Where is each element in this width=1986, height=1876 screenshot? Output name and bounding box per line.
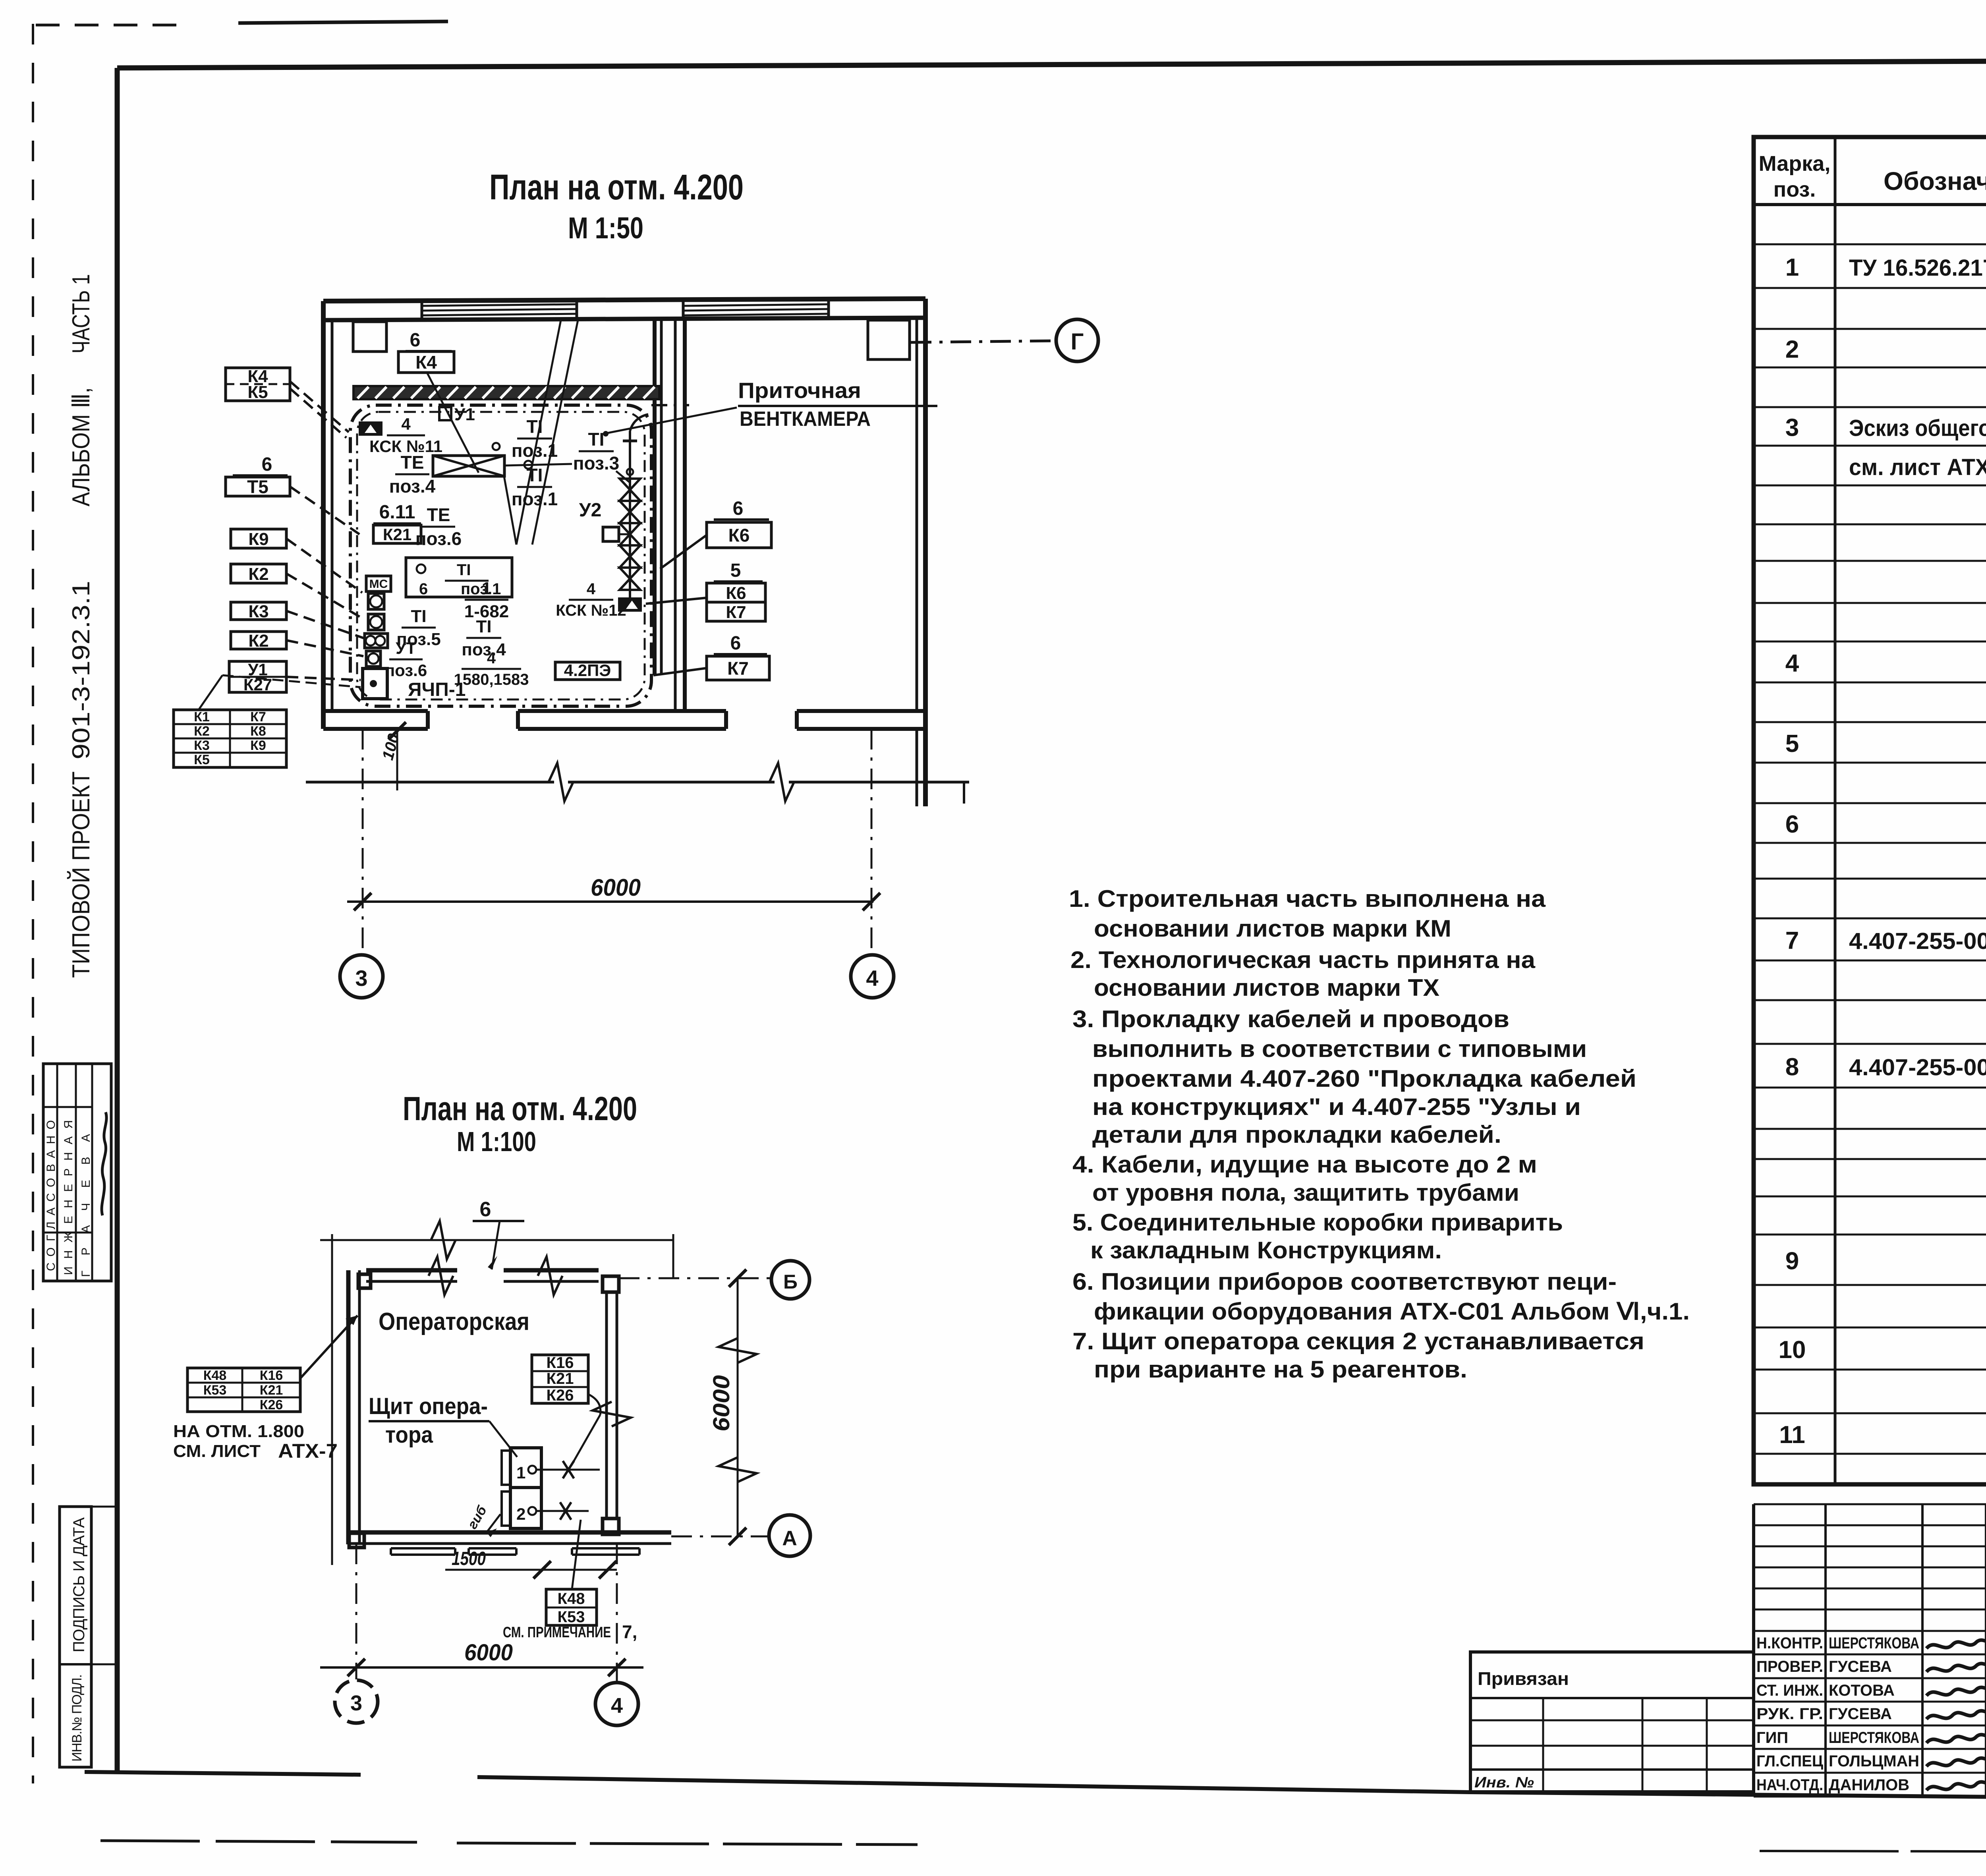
svg-text:План на отм. 4.200: План на отм. 4.200 xyxy=(403,1090,637,1127)
svg-text:1500: 1500 xyxy=(452,1548,486,1569)
dimension 1500 xyxy=(445,1569,617,1571)
table row lines xyxy=(1754,243,1986,245)
instrument box with list xyxy=(406,558,512,597)
axis Г leader and circle xyxy=(911,341,1055,342)
svg-text:к закладным Конструкциям.: к закладным Конструкциям. xyxy=(1090,1237,1442,1264)
svg-text:6000: 6000 xyxy=(591,874,641,901)
svg-text:выполнить в соответствии с: выполнить в соответствии с типовыми xyxy=(1092,1036,1587,1062)
svg-text:от уровня пола, защитить т: от уровня пола, защитить трубами xyxy=(1092,1179,1519,1206)
svg-text:4.407-255-003 исп.4: 4.407-255-003 исп.4 xyxy=(1849,928,1986,954)
svg-text:3: 3 xyxy=(350,1691,362,1715)
svg-text:ИНВ.№ ПОДЛ.: ИНВ.№ ПОДЛ. xyxy=(70,1674,85,1762)
svg-text:ВЕНТКАМЕРА: ВЕНТКАМЕРА xyxy=(740,408,871,431)
svg-text:1: 1 xyxy=(482,579,491,598)
left flag table K48/K16 ... xyxy=(187,1368,300,1412)
svg-text:К48: К48 xyxy=(203,1368,227,1383)
svg-text:8: 8 xyxy=(1785,1053,1799,1081)
flag K16/K21/K26 xyxy=(532,1355,588,1403)
svg-text:7,: 7, xyxy=(622,1621,637,1642)
svg-text:проектами 4.407-260 "Прокла: проектами 4.407-260 "Прокладка кабелей xyxy=(1092,1065,1636,1092)
svg-text:1. Строительная часть выполн: 1. Строительная часть выполнена на xyxy=(1069,885,1546,912)
svg-text:4. Кабели, идущие на высоте: 4. Кабели, идущие на высоте до 2 м xyxy=(1072,1151,1537,1178)
svg-text:К26: К26 xyxy=(260,1397,283,1412)
svg-text:АЛЬБОМ Ⅲ,: АЛЬБОМ Ⅲ, xyxy=(68,387,95,506)
svg-text:Н.КОНТР.: Н.КОНТР. xyxy=(1756,1634,1823,1652)
svg-text:см. лист АТХ-3.: см. лист АТХ-3. xyxy=(1849,454,1986,480)
svg-text:5. Соединительные коробки п: 5. Соединительные коробки приварить xyxy=(1072,1209,1563,1236)
lower plan: right wall xyxy=(605,1292,608,1519)
svg-text:К1: К1 xyxy=(194,709,210,725)
svg-text:К7: К7 xyxy=(726,603,746,622)
svg-text:ЧАСТЬ 1: ЧАСТЬ 1 xyxy=(68,274,95,354)
svg-text:К8: К8 xyxy=(250,724,266,739)
svg-text:У1: У1 xyxy=(454,405,475,424)
svg-text:ШЕРСТЯКОВА: ШЕРСТЯКОВА xyxy=(1829,1634,1919,1652)
sheet top edge artifact lines xyxy=(36,24,190,27)
svg-text:3: 3 xyxy=(355,966,367,991)
svg-text:4.2ПЭ: 4.2ПЭ xyxy=(564,661,611,680)
svg-text:К5: К5 xyxy=(194,752,210,767)
svg-text:6: 6 xyxy=(733,498,744,519)
svg-text:ТИПОВОЙ ПРОЕКТ: ТИПОВОЙ ПРОЕКТ xyxy=(67,771,95,978)
upper plan: left wall xyxy=(321,301,326,729)
axis A dash-dot and circle xyxy=(671,1536,767,1538)
svg-text:6: 6 xyxy=(419,580,428,598)
svg-text:К3: К3 xyxy=(194,738,210,753)
left sheet dashed edge xyxy=(32,24,34,1783)
left column instrument symbols xyxy=(366,576,391,591)
svg-text:Г: Г xyxy=(1071,329,1084,355)
lower plan: corner/columns xyxy=(358,1274,371,1288)
svg-text:ГУСЕВА: ГУСЕВА xyxy=(1829,1658,1892,1675)
svg-text:детали для прокладки кабел: детали для прокладки кабелей. xyxy=(1092,1121,1501,1148)
svg-text:поз.1: поз.1 xyxy=(461,580,501,598)
local panel YaChP-1 xyxy=(363,668,387,699)
junction box KSK-12 (filled) xyxy=(618,597,642,612)
svg-text:К7: К7 xyxy=(250,709,266,725)
axis B dash-dot and circle xyxy=(619,1277,771,1279)
svg-text:К16: К16 xyxy=(260,1368,283,1383)
title block: left signature grid xyxy=(1752,1504,1755,1797)
junction box KSK-11 (filled) xyxy=(359,421,383,436)
upper plan: right wall xyxy=(916,318,918,711)
svg-text:6: 6 xyxy=(410,330,421,351)
lower plan: left wall xyxy=(346,1270,351,1544)
operator panel xyxy=(510,1448,541,1488)
bottom-left cable table 4x2 xyxy=(174,710,286,767)
svg-text:Обозначение: Обозначение xyxy=(1884,167,1986,195)
svg-text:поз.4: поз.4 xyxy=(462,640,506,659)
svg-text:ГИП: ГИП xyxy=(1756,1729,1788,1747)
left margin lower boxes (podpis i data / inv no) xyxy=(60,1507,91,1767)
svg-text:4.407-255-002 исп.4: 4.407-255-002 исп.4 xyxy=(1849,1055,1986,1080)
svg-text:7. Щит оператора секция 2 у: 7. Щит оператора секция 2 устанавливаетс… xyxy=(1072,1328,1644,1354)
svg-text:тора: тора xyxy=(385,1422,433,1448)
svg-text:Б: Б xyxy=(783,1271,798,1293)
wall continuation line below plan xyxy=(306,781,554,784)
svg-text:2: 2 xyxy=(1785,336,1799,363)
svg-text:К6: К6 xyxy=(728,525,750,546)
svg-text:М 1:50: М 1:50 xyxy=(568,211,643,245)
svg-text:К9: К9 xyxy=(250,738,266,753)
axes circles 3 and 4 (lower) xyxy=(355,1544,357,1679)
svg-text:ТI: ТI xyxy=(411,607,426,626)
svg-text:6: 6 xyxy=(1785,811,1799,838)
svg-text:СТ. ИНЖ.: СТ. ИНЖ. xyxy=(1756,1682,1823,1699)
upper plan: bottom wall segments xyxy=(323,709,428,713)
svg-text:4: 4 xyxy=(1785,650,1799,677)
svg-text:ТI: ТI xyxy=(457,561,471,579)
svg-text:У2: У2 xyxy=(579,500,602,521)
svg-text:2. Технологическая часть при: 2. Технологическая часть принята на xyxy=(1070,947,1536,973)
svg-text:К48: К48 xyxy=(558,1590,585,1607)
table column lines xyxy=(1834,137,1837,1484)
svg-text:К2: К2 xyxy=(194,724,210,739)
svg-text:К3: К3 xyxy=(248,602,269,621)
svg-text:3: 3 xyxy=(1785,414,1799,442)
svg-text:Инв. №: Инв. № xyxy=(1474,1774,1534,1791)
svg-text:СМ. ПРИМЕЧАНИЕ: СМ. ПРИМЕЧАНИЕ xyxy=(503,1624,611,1641)
svg-text:К16: К16 xyxy=(547,1354,574,1372)
svg-text:поз.1: поз.1 xyxy=(512,489,558,509)
svg-text:при варианте на 5 реагенто: при варианте на 5 реагентов. xyxy=(1094,1356,1467,1383)
svg-text:6.11: 6.11 xyxy=(379,502,415,523)
table outer border xyxy=(1754,137,1986,1484)
svg-text:ТI: ТI xyxy=(476,617,491,636)
valve manifold U2 xyxy=(629,431,631,597)
flag K48/K53 below xyxy=(546,1589,597,1625)
cable route loop (dash-dot rounded) xyxy=(350,405,651,706)
drawing frame border xyxy=(117,59,1986,68)
svg-text:ПОДПИСЬ И ДАТА: ПОДПИСЬ И ДАТА xyxy=(70,1517,88,1652)
svg-text:6000: 6000 xyxy=(464,1640,513,1665)
svg-text:К4: К4 xyxy=(415,352,437,373)
svg-text:901-3-192.3.1: 901-3-192.3.1 xyxy=(68,581,95,759)
svg-text:К26: К26 xyxy=(547,1387,574,1404)
leader lines from top wall down to instrument box xyxy=(516,320,561,545)
svg-text:4: 4 xyxy=(487,649,496,667)
upper plan: internal wall between rooms xyxy=(653,320,657,675)
svg-text:Приточная: Приточная xyxy=(738,378,861,403)
upper plan: hatched shelf band xyxy=(354,386,659,399)
svg-text:К6: К6 xyxy=(726,583,746,603)
svg-text:6: 6 xyxy=(480,1198,491,1221)
cable runs from panel xyxy=(537,1469,600,1471)
svg-text:на конструкциях" и 4.407-25: на конструкциях" и 4.407-255 "Узлы и xyxy=(1092,1094,1581,1120)
svg-text:6000: 6000 xyxy=(709,1375,734,1432)
table header separator xyxy=(1754,203,1986,206)
svg-text:К53: К53 xyxy=(558,1608,585,1626)
svg-text:Щит опера-: Щит опера- xyxy=(369,1393,488,1419)
svg-text:К5: К5 xyxy=(247,383,268,402)
crossed box xyxy=(433,456,504,476)
svg-text:основании листов марки ТХ: основании листов марки ТХ xyxy=(1094,974,1439,1001)
svg-text:К2: К2 xyxy=(248,631,269,651)
svg-text:основании листов марки КМ: основании листов марки КМ xyxy=(1094,915,1451,942)
box 4.2PE xyxy=(555,662,620,680)
svg-text:УТ: УТ xyxy=(396,639,416,657)
upper plan: top-left interior recess xyxy=(353,322,386,352)
svg-text:К21: К21 xyxy=(383,525,411,544)
svg-text:9: 9 xyxy=(1785,1248,1799,1275)
svg-text:ТI: ТI xyxy=(588,429,605,450)
svg-text:поз.6: поз.6 xyxy=(385,661,427,680)
dimension 6000 (lower) xyxy=(320,1666,643,1669)
dimension line 6000 (upper plan) xyxy=(347,900,873,903)
privyazan box xyxy=(1470,1652,1754,1792)
svg-text:НА ОТМ. 1.800: НА ОТМ. 1.800 xyxy=(173,1422,304,1441)
svg-text:МС: МС xyxy=(369,578,388,591)
left margin upper stamp table xyxy=(43,1064,111,1281)
svg-text:К7: К7 xyxy=(727,658,749,679)
svg-text:11: 11 xyxy=(1779,1421,1805,1449)
svg-text:1: 1 xyxy=(516,1463,525,1482)
svg-text:ТУ 16.526.217-78: ТУ 16.526.217-78 xyxy=(1849,255,1986,281)
svg-text:ШЕРСТЯКОВА: ШЕРСТЯКОВА xyxy=(1829,1729,1919,1747)
svg-text:ГОЛЬЦМАН: ГОЛЬЦМАН xyxy=(1829,1752,1919,1770)
riser symbol U1 at top wall xyxy=(439,407,451,420)
svg-text:4: 4 xyxy=(401,415,411,433)
svg-text:7: 7 xyxy=(1785,927,1799,954)
svg-text:СОГЛАСОВАНО: СОГЛАСОВАНО xyxy=(44,1120,58,1271)
svg-text:НАЧ.ОТД.: НАЧ.ОТД. xyxy=(1756,1776,1823,1794)
svg-text:План на отм. 4.200: План на отм. 4.200 xyxy=(489,168,744,207)
lower plan: top dimension line xyxy=(320,1239,673,1241)
lower plan: top wall xyxy=(366,1268,457,1273)
axis extension dash-dot lines xyxy=(362,729,364,952)
lower plan: bottom wall xyxy=(348,1530,671,1535)
svg-text:поз.3: поз.3 xyxy=(573,453,620,473)
svg-text:6: 6 xyxy=(262,454,272,475)
svg-text:ГЛ.СПЕЦ: ГЛ.СПЕЦ xyxy=(1756,1752,1823,1770)
svg-text:1: 1 xyxy=(1785,254,1799,281)
svg-text:К9: К9 xyxy=(248,529,269,549)
upper plan: top-right recess to axis G xyxy=(868,320,910,359)
svg-text:Операторская: Операторская xyxy=(379,1308,529,1335)
dimension 100 near door xyxy=(396,729,398,790)
svg-text:2: 2 xyxy=(516,1505,525,1523)
svg-text:Марка,: Марка, xyxy=(1759,152,1831,176)
svg-text:ГУСЕВА: ГУСЕВА xyxy=(1829,1705,1892,1723)
svg-text:3. Прокладку кабелей и пр: 3. Прокладку кабелей и проводов xyxy=(1072,1006,1509,1032)
svg-text:Т5: Т5 xyxy=(247,477,269,497)
axis circle 3 (upper) xyxy=(340,955,383,998)
left outside flags with leaders xyxy=(226,368,290,401)
svg-text:Привязан: Привязан xyxy=(1478,1668,1569,1689)
upper plan: top wall xyxy=(323,299,925,301)
svg-text:Эскиз общего вида: Эскиз общего вида xyxy=(1849,415,1986,441)
svg-text:СМ. ЛИСТ: СМ. ЛИСТ xyxy=(173,1441,261,1461)
svg-text:поз.: поз. xyxy=(1773,178,1816,201)
svg-text:К2: К2 xyxy=(248,564,269,584)
svg-text:АТХ-7: АТХ-7 xyxy=(278,1440,338,1462)
svg-text:5: 5 xyxy=(730,560,741,581)
left margin vertical text: album / project id xyxy=(67,274,95,978)
svg-text:ТЕ: ТЕ xyxy=(401,452,424,473)
svg-text:4: 4 xyxy=(611,1694,623,1718)
svg-text:6: 6 xyxy=(730,633,741,654)
svg-text:10: 10 xyxy=(1779,1336,1806,1364)
svg-text:поз.4: поз.4 xyxy=(389,476,436,497)
signature squiggles in stamp xyxy=(102,1112,106,1215)
svg-text:6. Позиции приборов соответс: 6. Позиции приборов соответствуют пеци- xyxy=(1072,1268,1617,1295)
lower plan: windows below bottom wall xyxy=(391,1547,455,1549)
svg-text:фикации оборудования АТХ-С01: фикации оборудования АТХ-С01 Альбом Ⅵ,ч.… xyxy=(1094,1298,1690,1325)
svg-text:5: 5 xyxy=(1785,730,1799,757)
svg-text:4: 4 xyxy=(866,966,878,991)
svg-text:К53: К53 xyxy=(203,1383,227,1398)
svg-text:ПРОВЕР.: ПРОВЕР. xyxy=(1756,1658,1823,1675)
svg-text:К21: К21 xyxy=(260,1383,283,1398)
right dimension 6000 (vertical) xyxy=(737,1278,739,1536)
upper plan: window strips in top wall xyxy=(422,304,577,306)
svg-text:ЯЧП-1: ЯЧП-1 xyxy=(408,679,466,700)
svg-text:КСК №12: КСК №12 xyxy=(556,602,626,619)
svg-text:А: А xyxy=(782,1527,797,1550)
svg-text:КОТОВА: КОТОВА xyxy=(1829,1682,1895,1699)
svg-text:РУК. ГР.: РУК. ГР. xyxy=(1756,1705,1823,1723)
svg-text:К21: К21 xyxy=(547,1370,574,1387)
svg-text:ТЕ: ТЕ xyxy=(427,504,450,525)
svg-text:М 1:100: М 1:100 xyxy=(457,1126,536,1157)
bottom scan artifact lines xyxy=(100,1841,417,1842)
svg-text:ДАНИЛОВ: ДАНИЛОВ xyxy=(1829,1776,1909,1794)
axis circle 4 (upper) xyxy=(851,955,894,998)
svg-text:4: 4 xyxy=(587,580,596,598)
